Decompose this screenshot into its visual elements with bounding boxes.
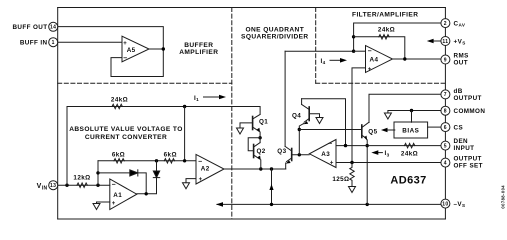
svg-text:CS: CS [454,125,464,132]
svg-text:BUFF OUT: BUFF OUT [12,24,47,31]
svg-text:–: – [328,140,332,147]
wire: VIN line from pin 13 to A1 inverting input [58,184,110,186]
section divider dashed vertical (filter left) [315,8,317,84]
svg-text:INPUT: INPUT [454,145,475,152]
svg-text:A2: A2 [201,166,210,173]
wire: BUFF IN from pin 1 to A5 + input [58,41,122,43]
section divider dashed vertical (squarer left) [231,8,233,220]
wire: A2 output bus to squarer [224,168,286,170]
resistor 24k ohm (abs value) [112,104,122,108]
node: Q2 emitter on A2 bus [259,167,262,170]
diode D2 (vertical) [153,171,159,178]
wire: drop from bus to -Vs rail [271,169,273,204]
arrow: I1 current annotation [204,96,220,98]
transistor Q3 (mirrored) [285,51,292,169]
arrowhead: -Vs rail left [216,202,223,207]
svg-text:6: 6 [444,125,447,131]
svg-text:2: 2 [444,21,447,27]
node: diode D1 line junction [96,171,99,174]
node: Q4 emitter / Q5 base branch [298,128,301,131]
node: A4 summing node [352,50,355,53]
op-amp A2 [196,154,224,184]
arrow: I3 current annotation [378,152,383,154]
svg-text:–: – [123,55,127,62]
pin 14 BUFF OUT [49,22,58,31]
svg-text:ABSOLUTE VALUE VOLTAGE TO: ABSOLUTE VALUE VOLTAGE TO [69,126,183,133]
wire: diode D1 branch to A1 output [98,173,146,194]
svg-text:14: 14 [50,25,56,31]
node: VIN / 24k feedback junction [65,184,68,187]
svg-text:ONE QUADRANT: ONE QUADRANT [245,27,304,34]
wire: 6k line left leg down to VIN node [97,161,99,185]
wire: A4 inverting input [354,50,366,52]
pin 9 RMS OUT [441,55,450,64]
node: bus to rail drop [270,167,273,170]
ground (COMMON) [384,113,391,119]
wire: outer border right (pin column) [444,8,446,220]
wire: outer border bottom [58,218,446,220]
svg-text:+: + [330,160,334,166]
wire: Q3 collector to A4 summing node (I4 net) [285,50,354,52]
wire: A5 feedback loop output to inverting input [111,49,163,77]
pin 8 COMMON [441,106,450,115]
svg-text:5: 5 [444,143,447,149]
arrow: +Vs annotation [433,40,441,42]
diode D1 [130,170,138,176]
section divider dashed horizontal (filter bottom) [316,82,446,84]
wire: DEN INPUT pin 5 to A3 inverting input [336,145,441,147]
wire: Q3 base to A3 output [292,154,309,156]
resistor 125 ohm (vertical) [350,163,354,187]
svg-text:6kΩ: 6kΩ [164,152,177,159]
node: 6k line / diode D2 junction [155,159,158,162]
svg-text:+: + [112,201,116,207]
svg-text:BUFF IN: BUFF IN [20,40,48,47]
wire: COMMON pin 8 line [388,111,441,114]
resistor 12k ohm [77,183,87,187]
svg-text:A1: A1 [113,192,122,199]
svg-text:24kΩ: 24kΩ [401,151,418,158]
wire: abs value output line (I1 net) to Q1 collector [67,107,260,115]
svg-text:1: 1 [52,40,55,46]
wire: BIAS to CS pin 6 [428,126,441,128]
svg-text:CAV: CAV [454,20,466,27]
pin 13 VIN [49,181,58,190]
wire: A1 output [137,161,157,194]
svg-text:A3: A3 [321,151,330,158]
svg-text:AMPLIFIER: AMPLIFIER [179,49,218,56]
resistor 6k ohm (right) [164,159,174,163]
node: Q1 emitter / Q2 collector / Q2 base [258,136,261,139]
transistor Q5 [362,122,369,204]
ground (Q1 base) [237,128,244,134]
ground (125 ohm) [349,187,356,193]
resistor 6k ohm (left) [114,159,124,163]
wire: A1 + input to ground [97,202,110,204]
svg-text:+: + [199,177,203,183]
transistor Q4 (mirrored) [299,99,319,155]
svg-text:11: 11 [442,39,448,45]
node: A1 output / D1 junction [145,192,148,195]
node: abs line / A2 branch junction [183,105,186,108]
node: DEN line / Q4 collector junction [344,144,347,147]
wire: 6k feedback line into A2 inverting input [98,160,196,162]
svg-text:OUTPUT: OUTPUT [454,155,482,162]
svg-text:13: 13 [50,183,56,189]
svg-text:I3: I3 [385,150,390,157]
node: rail / Q5 emitter junction [366,203,369,206]
svg-text:7: 7 [444,92,447,98]
svg-text:AD637: AD637 [390,175,426,187]
wire: -Vs rail [217,203,441,205]
pin 10 -VS [441,199,450,208]
pin 5 DEN INPUT [441,141,450,150]
svg-text:24kΩ: 24kΩ [378,26,395,33]
node: VIN / 6k feedback junction [96,184,99,187]
svg-text:–VS: –VS [454,201,466,208]
pin 4 OUTPUT OFFSET [441,158,450,167]
pin 11 +VS [441,37,450,46]
wire: A4 24k feedback [354,37,405,59]
svg-text:Q2: Q2 [257,148,266,155]
svg-text:A4: A4 [370,56,379,63]
pin 2 CAV [441,19,450,28]
svg-text:VIN: VIN [37,183,48,191]
node: 125 ohm junction [350,161,353,164]
svg-text:COMMON: COMMON [454,108,486,115]
pin 7 dB OUTPUT [441,90,450,99]
svg-text:Q5: Q5 [368,128,377,135]
node: A5 output junction [162,47,165,50]
svg-text:8: 8 [444,109,447,115]
op-amp A5 [122,36,149,62]
wire: BUFF OUT from pin 14 to A5 output [58,27,164,49]
wire: A4 + input down to dB node [352,68,366,163]
svg-text:I4: I4 [321,58,326,65]
ground (A2 + input) [183,183,190,189]
svg-text:–: – [368,48,372,55]
arrow: BIAS to Q5 base [388,129,395,131]
wire: A4 output to RMS OUT pin 9 [393,58,442,60]
wire: 24k branch up from VIN node to abs-value output line [66,107,68,186]
svg-text:BUFFER: BUFFER [184,42,213,49]
svg-text:FILTER/AMPLIFIER: FILTER/AMPLIFIER [352,12,418,19]
svg-text:–: – [198,158,202,165]
wire: BIAS to COMMON [411,111,413,123]
node: A4 output / feedback junction [403,57,406,60]
wire: OUTPUT OFFSET pin 4 to A3 + input [336,162,441,164]
svg-text:12kΩ: 12kΩ [73,175,90,182]
svg-text:DEN: DEN [454,138,469,145]
svg-text:Q3: Q3 [277,148,286,155]
node: Q5 emitter / DEN line [366,144,369,147]
svg-text:Q4: Q4 [292,112,301,119]
svg-text:+: + [123,41,127,47]
bias cell U1 [394,122,428,138]
svg-text:OFF SET: OFF SET [454,162,483,169]
section divider dashed horizontal (buffer bottom) [58,82,232,84]
current arrow up on drop wire [269,184,273,190]
op-amp A3 (points left) [309,140,336,168]
node: 24k feedback top corner [352,35,355,38]
wire: branch from abs line down to 6k line (A2 inverting input) [184,107,186,161]
svg-text:+VS: +VS [454,38,466,45]
node: Q3 base / Q4 emitter / A3 output [298,153,301,156]
svg-text:00788-004: 00788-004 [500,185,505,209]
svg-text:4: 4 [444,160,447,166]
pin 6 CS [441,123,450,132]
wire: squarer to Q5 base [299,129,362,131]
svg-text:I1: I1 [194,95,199,102]
wire: Q4 collector to A3 inverting input [302,99,346,146]
transistor Q2 [248,138,261,169]
svg-text:+: + [368,67,372,73]
wire: outer border left [57,8,59,220]
resistor 24k ohm (filter feedback) [379,35,389,39]
svg-text:–: – [112,181,116,188]
svg-text:A5: A5 [127,47,136,54]
arrow: I4 current annotation [330,59,340,61]
wire: outer border top (CAV net) [58,7,446,9]
ground (Q4 base) [316,118,323,124]
transistor Q1 [240,114,260,137]
svg-text:OUT: OUT [454,60,469,67]
node: rail / drop junction [270,203,273,206]
node: 6k line / 24k branch junction [183,159,186,162]
wire: CAV from pin 2 to A4 summing node [354,23,441,51]
svg-text:10: 10 [442,201,448,207]
svg-text:SQUARER/DIVIDER: SQUARER/DIVIDER [241,34,309,41]
svg-text:OUTPUT: OUTPUT [454,95,482,102]
pin 1 BUFF IN [49,38,58,47]
wire: A5 output to node [149,48,163,50]
svg-text:Q1: Q1 [259,118,268,125]
node: COMMON / BIAS junction [410,109,413,112]
svg-text:24kΩ: 24kΩ [111,97,128,104]
svg-text:125Ω: 125Ω [332,176,349,183]
wire: A2 + input to ground [186,179,196,183]
svg-text:6kΩ: 6kΩ [112,152,125,159]
svg-text:9: 9 [444,57,447,63]
resistor 24k ohm (denominator) [404,143,414,147]
svg-text:CURRENT CONVERTER: CURRENT CONVERTER [85,134,167,141]
wire: dB OUTPUT pin 7 to Q5 collector [369,94,441,122]
op-amp A4 [366,46,393,73]
op-amp A1 [110,179,137,210]
svg-text:BIAS: BIAS [402,128,419,135]
ground (A1 + input) [93,204,100,210]
